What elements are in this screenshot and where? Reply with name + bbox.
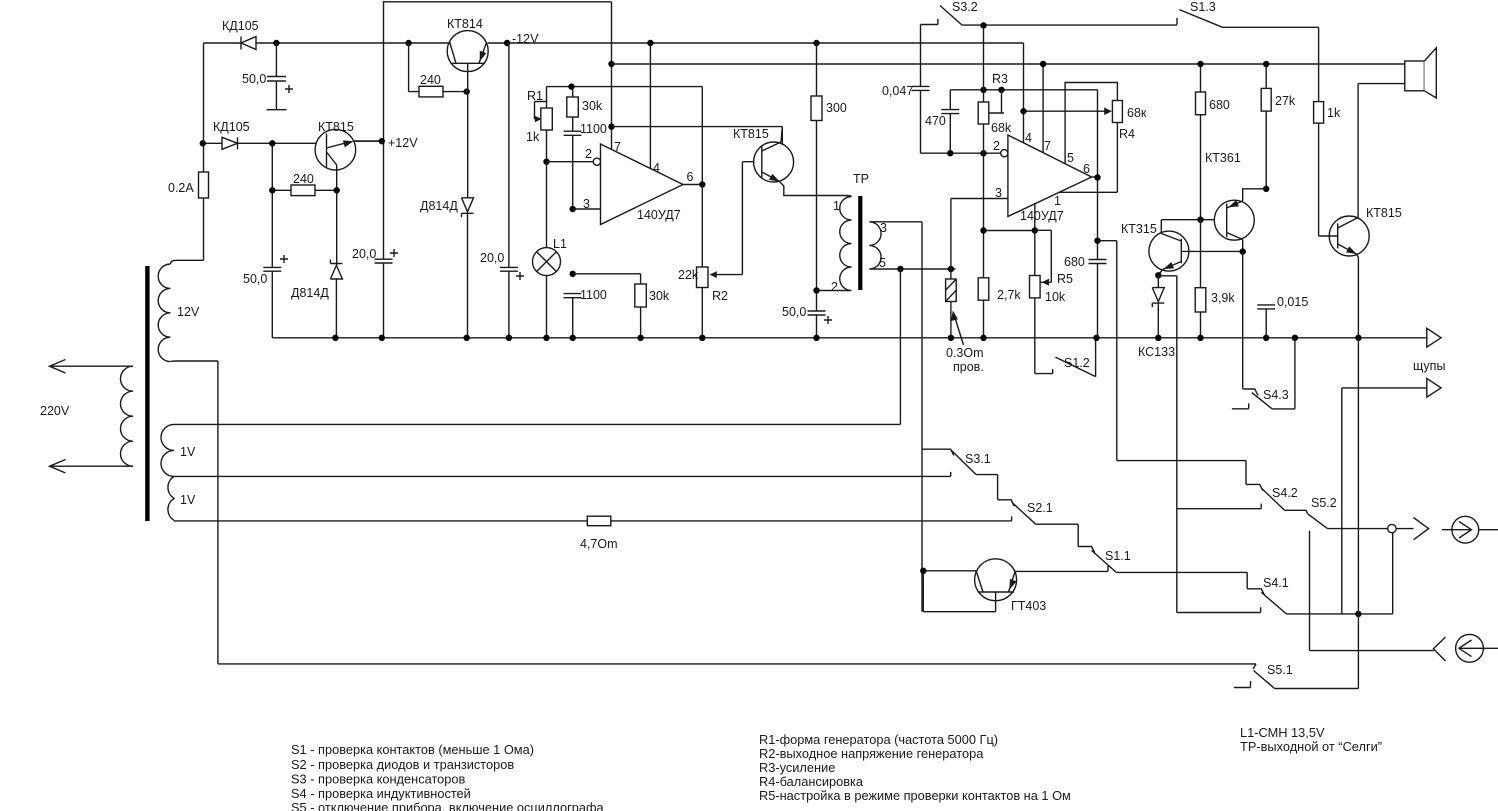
svg-text:+12V: +12V [388,136,418,150]
transistor KT815 driver [754,127,847,196]
wire pin7 to KT815-2 collector [612,127,783,144]
node pin5 / probe chain [948,266,954,272]
svg-text:10k: 10k [1045,290,1066,304]
svg-text:30k: 30k [649,289,670,303]
potentiometer R3 68k [978,25,1004,153]
switch S4.2 [1177,461,1308,514]
wire feedback top y=86.6 [547,86,703,88]
svg-text:3: 3 [880,221,887,235]
diode KD105 (second) [222,137,238,149]
resistor 1k [1314,102,1324,236]
resistor 680 (right) [1196,64,1206,220]
svg-text:КТ815: КТ815 [318,120,354,134]
wire KT361 collector node down to S4.3 [1242,252,1244,389]
svg-text:пров.: пров. [953,360,984,374]
node S3.2 output / R3 chain [980,22,986,28]
node gnd KT815 emitter [1355,335,1361,341]
svg-text:1: 1 [833,199,840,213]
svg-text:3: 3 [583,197,590,211]
svg-text:S3.1: S3.1 [965,452,991,466]
svg-text:1100: 1100 [580,288,607,302]
svg-text:R4-балансировка: R4-балансировка [759,774,864,789]
svg-text:68k: 68k [991,121,1012,135]
svg-text:2: 2 [831,280,838,294]
node pin3 junction [570,206,576,212]
wire 30k-2 branch [573,273,641,275]
svg-text:50,0: 50,0 [782,305,806,319]
svg-text:S1.3: S1.3 [1190,0,1216,14]
node feedback / 30k [568,83,574,89]
resistor 240 (upper, KT814) [409,43,467,97]
svg-text:30k: 30k [582,99,603,113]
node +12V rail / emitter [379,138,385,144]
svg-text:680: 680 [1064,255,1085,269]
resistor 27k [1261,64,1271,189]
capacitor 1100 (upper) [564,131,582,209]
transistor KT361 [1214,189,1266,252]
wire KT815 emitter riser to S5.1 [1357,338,1359,689]
svg-text:R2: R2 [712,289,728,303]
wire probe 2 line [1342,388,1427,614]
fuse 0.2A [199,43,209,260]
node pin1 / R5 [1032,227,1038,233]
node 27k bottom / KT361 emitter [1263,186,1269,192]
wire 680 node to S4.2 input [1098,241,1247,461]
node gnd S1.2 / 680 [1093,335,1099,341]
speaker [1358,48,1436,98]
transformer TP secondary winding [869,222,955,269]
capacitor 470 [941,90,959,153]
node gnd 50,0 TP [813,335,819,341]
wire op2 pin3 [951,199,1008,270]
svg-text:140УД7: 140УД7 [1020,209,1064,223]
svg-text:1V: 1V [180,493,196,507]
transformer 220V primary winding [120,366,133,466]
potentiometer R5 10k [1030,230,1052,373]
wire TP pin3 riser to S3.1 [921,222,923,612]
node gnd 2,7k [980,335,986,341]
svg-text:6: 6 [1083,162,1090,176]
connector terminal circle S5.2 [1388,524,1396,532]
svg-text:4: 4 [1025,131,1032,145]
wire 220V bottom lead arrow [50,460,134,474]
svg-text:КС133: КС133 [1138,345,1175,359]
svg-text:S2 - проверка диодов и транзис: S2 - проверка диодов и транзисторов [291,757,514,772]
node KT315 emitter [1155,272,1161,278]
capacitor 50,0 (second) [263,143,288,337]
svg-text:12V: 12V [177,305,200,319]
arrow connector 1 [1414,518,1429,540]
node -12V bus / 240 branch [405,40,411,46]
wire connector 2 line [1310,531,1434,651]
node gnd R2 [699,335,705,341]
node gnd S4.3 riser [1292,335,1298,341]
capacitor 1100 (lower) [564,294,582,338]
svg-text:R5: R5 [1057,272,1073,286]
svg-text:КТ815: КТ815 [1366,206,1402,220]
node gnd 30k-2 [637,335,643,341]
svg-text:L1: L1 [553,237,567,251]
zener D814D (right) cathode-down [462,198,474,338]
svg-text:3,9k: 3,9k [1211,291,1235,305]
node -12V bus / 300 riser [813,40,819,46]
capacitor 50,0 (TP) [808,291,833,338]
legend R1-R5 [759,732,1071,803]
svg-text:S4 - проверка индуктивностей: S4 - проверка индуктивностей [291,786,471,801]
node GT403 collector tap [920,568,926,574]
wire balance y=230.5 [984,230,1035,232]
svg-text:2: 2 [993,139,1000,153]
wire op1 pin4 riser [649,43,651,169]
transformer T1 core [145,266,149,521]
svg-text:2,7k: 2,7k [997,288,1021,302]
capacitor 0,015 [1257,305,1275,338]
wire op1 output pin6 [683,184,702,186]
svg-text:240: 240 [293,172,314,186]
svg-text:240: 240 [420,73,441,87]
svg-text:L1-СМН 13,5V: L1-СМН 13,5V [1240,725,1325,740]
wire op-amp1 pin2 [547,161,594,163]
svg-text:R2-выходное напряжение генерат: R2-выходное напряжение генератора [759,746,984,761]
wire 1V mid lead to S3.1 contact [174,472,951,477]
node 680 cap top [1094,238,1100,244]
svg-text:S4.3: S4.3 [1263,388,1289,402]
svg-text:S1 - проверка контактов (меньш: S1 - проверка контактов (меньше 1 Ома) [291,742,534,757]
transistor KT814 [447,31,488,92]
svg-text:470: 470 [925,114,946,128]
svg-text:1: 1 [1054,194,1061,208]
resistor 4,7Om [587,516,611,526]
wire +12V bus y=64 [612,63,1403,65]
node pin7 riser / bus [1040,61,1046,67]
resistor 240 (lower) [272,185,336,196]
svg-text:щупы: щупы [1413,359,1445,373]
svg-text:0.2A: 0.2A [168,181,194,195]
node gnd D814D-2 [464,335,470,341]
wire 220V top lead arrow [50,360,134,374]
svg-text:7: 7 [1044,139,1051,153]
svg-text:1k: 1k [526,130,540,144]
svg-text:R3-усиление: R3-усиление [759,760,835,775]
svg-text:КД105: КД105 [222,19,259,33]
transformer 1V winding lower [168,476,174,520]
wire op2 pin5 riser + link [1065,83,1117,164]
wire 12V return riser [217,361,219,664]
resistor 2,7k [978,278,989,338]
svg-text:4: 4 [653,161,660,175]
svg-text:680: 680 [1209,98,1230,112]
svg-text:0.3Оm: 0.3Оm [946,346,984,360]
wire R3 node y=89.8 to pin6 [950,90,1097,241]
wire op2 output [1092,176,1098,178]
svg-text:7: 7 [614,140,621,154]
wire KT814 stem down [467,92,469,198]
svg-text:S5 - отключение прибора, включ: S5 - отключение прибора, включение осцил… [291,800,605,811]
svg-text:-12V: -12V [512,32,539,46]
svg-text:0,015: 0,015 [1277,295,1308,309]
svg-text:4,7Оm: 4,7Оm [580,537,618,551]
lamp L1 [533,162,561,338]
wire -12V top bus y=43 [204,42,1024,44]
node gnd 20,0 [506,335,512,341]
svg-text:R4: R4 [1119,127,1135,141]
capacitor 20,0 (right x=509) [500,43,524,338]
wire op2 pin7 riser [1042,64,1044,153]
label 0.3Om with arrow [946,311,984,375]
svg-text:КТ361: КТ361 [1205,151,1241,165]
node pin6 op2 [1094,174,1100,180]
node -12V bus / cap50 junction [273,40,279,46]
transistor KT815 regulator [315,129,383,190]
node pin2 wire / 470 [947,150,953,156]
switch S1.3 [1177,10,1319,102]
transistor KT815 output [1319,84,1370,338]
probe arrow 1 [1427,328,1441,347]
wire 1V bottom lead 4,7Om [174,516,1012,521]
resistor 3,9k [1195,220,1206,338]
switch S4.3 [1232,338,1295,409]
svg-text:20,0: 20,0 [480,251,504,265]
node gnd KS133 [1155,335,1161,341]
svg-text:1k: 1k [1327,106,1341,120]
node R3 wiper top [998,87,1004,93]
node gnd D814D-1 [332,335,338,341]
switch S3.2 [921,6,963,26]
node gnd L1 [543,335,549,341]
wire R3 chain to 2,7k [983,153,985,278]
connector 1 circle with arrow [1442,516,1498,543]
node gnd 0,015 [1263,335,1269,341]
svg-text:КТ814: КТ814 [447,17,483,31]
svg-text:1100: 1100 [580,122,607,136]
svg-text:220V: 220V [40,404,70,418]
node -12V bus / 20,0 branch [504,40,510,46]
svg-text:S1.1: S1.1 [1105,549,1131,563]
svg-text:2: 2 [585,147,592,161]
node 300 / pin2 / 50,0 [813,287,819,293]
node R3 top [980,87,986,93]
transformer 12V winding [158,260,218,361]
resistor 300 [811,43,822,291]
node KT814 base stem / 240 [464,88,470,94]
node pin7 riser / KT815-2 collector link [608,123,614,129]
wire R2 riser [701,87,703,338]
svg-text:S4.1: S4.1 [1263,576,1289,590]
connector 2 circle with arrow [1456,634,1498,662]
node 1100-2 / 30k-2 branch [570,271,576,277]
wire 0.047 riser (S3.2 left to pin2 wire) [921,25,1001,154]
svg-text:140УД7: 140УД7 [637,208,681,222]
probe arrow 2 [1427,378,1441,397]
potentiometer R2 22k [697,162,762,288]
node 27k top bus [1263,61,1269,67]
diode KD105 (top) [241,37,256,50]
svg-text:S3.2: S3.2 [952,0,978,14]
transistor KT315 [1149,220,1243,276]
wire S5.2 output to connector 1 [1396,528,1413,530]
node gnd rail [379,335,385,341]
node R1 bottom / pin2 [543,159,549,165]
wire op2 pin4 riser [1023,43,1025,143]
svg-text:R3: R3 [992,72,1008,86]
node S4.1 output / KT815 emitter riser [1355,611,1361,617]
switch S4.1 [1177,572,1393,614]
wire top box (+12V loop) [384,2,612,43]
wire op-amp1 pin3 [573,208,601,210]
node 680 top bus [1197,61,1203,67]
svg-text:КТ815: КТ815 [733,127,769,141]
resistor 30k (upper) [567,87,579,132]
transformer TP primary winding [817,196,852,291]
svg-text:ГТ403: ГТ403 [1011,599,1046,613]
capacitor 680 [1089,241,1107,338]
node KT361 collector / KT315 base [1240,248,1246,254]
svg-text:50,0: 50,0 [242,72,266,86]
svg-text:R1-форма генератора (частота 5: R1-форма генератора (частота 5000 Гц) [759,732,998,747]
svg-text:S3 - проверка конденсаторов: S3 - проверка конденсаторов [291,772,466,787]
svg-text:50,0: 50,0 [243,272,267,286]
svg-text:6: 6 [687,170,694,184]
svg-text:5: 5 [879,256,886,270]
svg-text:Д814Д: Д814Д [420,199,458,213]
switch S2.1 [998,500,1079,547]
node base KT815 / cap50-2 [269,140,275,146]
node gnd 0.3Om [948,335,954,341]
svg-text:S1.2: S1.2 [1064,356,1090,370]
arrow connector 2 [1433,637,1445,661]
capacitor 20,0 (rail) [375,249,399,263]
node pin7 riser / +12V bus [608,61,614,67]
svg-text:27k: 27k [1275,94,1296,108]
zener KS133 [1152,275,1164,338]
transformer 1V winding upper [161,424,174,476]
legend S1-S5 [291,742,605,811]
wire bottom rail to S5.1 [218,664,1256,669]
svg-text:Д814Д: Д814Д [291,286,329,300]
potentiometer R4 68k [1024,101,1123,193]
node -12V bus / op-amp1 pin4 riser [647,40,653,46]
wire S4.1 riser to terminal circle [1392,533,1394,614]
zener D814D (left) cathode-up [330,190,342,337]
wire KT315 collector line y=219.7 [1161,219,1226,221]
node gnd 1100-2 [570,335,576,341]
transistor GT403 [923,559,1108,612]
svg-text:20,0: 20,0 [352,247,376,261]
op-amp U1 140UD7 [593,144,683,225]
wire power gnd bus y=337.8 [272,337,1427,339]
node gnd 3,9k [1197,335,1203,341]
capacitor 0,047 [912,86,930,90]
svg-text:68к: 68к [1127,106,1147,120]
node pin2 wire / R3 chain [980,150,986,156]
wire 1V link riser [899,269,901,424]
node fuse line / diode2 tap [200,140,206,146]
svg-text:5: 5 [1067,151,1074,165]
svg-text:1V: 1V [180,445,196,459]
svg-text:22k: 22k [678,268,699,282]
transformer TP core [858,196,862,290]
svg-text:R1: R1 [527,89,543,103]
op-amp U2 140UD7 [1001,135,1092,217]
node 240-2 left [269,187,275,193]
resistor 0.3Om wire element [946,269,957,338]
switch S5.2 [1308,514,1388,529]
node collector line / 680-3,9k riser [1197,217,1203,223]
svg-text:S5.1: S5.1 [1267,663,1293,677]
svg-text:ТР-выходной от “Селги”: ТР-выходной от “Селги” [1240,739,1382,754]
svg-text:300: 300 [826,101,847,115]
switch S1.1 [1078,547,1247,573]
svg-text:КД105: КД105 [213,120,250,134]
wire pin1 stub [1034,203,1036,231]
capacitor 50,0 (top) [267,43,294,110]
node 240-2 right / KT815 collector [334,187,340,193]
svg-text:0,047: 0,047 [882,84,913,98]
legend L1 TP [1240,725,1382,754]
switch S5.1 [1234,671,1358,689]
node R4 wiper / pin4 riser [1020,108,1026,114]
switch S1.2 [1035,338,1096,377]
node pin6 / feedback / R2 [699,181,705,187]
potentiometer R1 1k [535,87,553,162]
node pin1 balance wire left [980,227,986,233]
wire emitter node to S4.x contacts riser [1158,276,1177,613]
wire +12V rail x=383.5 [354,43,383,338]
svg-text:S2.1: S2.1 [1027,501,1053,515]
svg-text:S5.2: S5.2 [1311,496,1337,510]
wire 1V top long lead [174,423,900,425]
svg-text:S4.2: S4.2 [1272,486,1298,500]
switch S3.1 [922,449,998,500]
node pin5 / 1V link [897,266,903,272]
svg-text:КТ315: КТ315 [1121,222,1157,236]
svg-text:ТР: ТР [853,172,869,186]
wire +12V node line y=143 [204,142,327,144]
svg-text:R5-настройка в режиме проверки: R5-настройка в режиме проверки контактов… [759,788,1071,803]
wire S3.2 output to S1.3 [962,24,1177,26]
resistor 30k (lower) [635,274,647,338]
wire op1 pin7 riser [611,2,613,150]
